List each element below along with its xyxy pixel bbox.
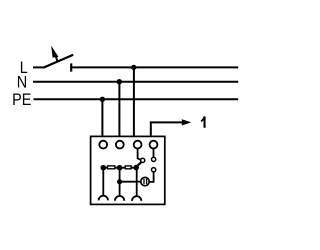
svg-text:N: N bbox=[17, 73, 27, 91]
terminal circle L bbox=[134, 141, 142, 149]
terminal circle output bbox=[150, 141, 158, 149]
switch blade internal bbox=[136, 162, 141, 167]
terminal circle N bbox=[116, 141, 124, 149]
switch S1 blade bbox=[43, 55, 73, 68]
socket contact arc 3 bbox=[132, 196, 141, 201]
arrow output 1 head bbox=[182, 119, 192, 125]
wire lamp right bbox=[149, 172, 153, 182]
wire contact1 stem bbox=[102, 168, 104, 196]
wire PE drop bbox=[101, 99, 103, 136]
contact SC3 bbox=[152, 168, 156, 172]
node bus N bbox=[117, 165, 123, 171]
node lamp junction bbox=[117, 179, 122, 184]
wire terminal L stem bbox=[138, 149, 141, 160]
wire output 1 bbox=[151, 122, 189, 136]
label 1 bbox=[201, 116, 206, 127]
link K1 bbox=[108, 166, 115, 169]
node PE junction bbox=[100, 97, 105, 102]
wire contact2 stem bbox=[119, 168, 121, 196]
wire PE bbox=[34, 98, 239, 100]
node N junction bbox=[117, 79, 122, 84]
contact SC1 bbox=[141, 158, 145, 162]
node bus PE bbox=[101, 165, 107, 171]
wire L main bbox=[71, 66, 238, 68]
terminal circle PE bbox=[99, 141, 107, 149]
wire contact3 stem bbox=[136, 168, 138, 197]
switch S1 fixed contact tick bbox=[70, 63, 72, 71]
svg-text:PE: PE bbox=[12, 91, 31, 109]
wire lamp left bbox=[120, 181, 141, 183]
socket contact arc 1 bbox=[99, 196, 108, 201]
lamp E1 glow lamp bbox=[141, 177, 149, 185]
internal bus wire bbox=[103, 167, 137, 169]
link K2 bbox=[125, 166, 131, 169]
wire L left stub bbox=[33, 66, 43, 68]
wire terminal output stem bbox=[153, 149, 155, 158]
node bus pole bbox=[133, 165, 139, 171]
wire N bbox=[33, 81, 238, 83]
device box U1 bbox=[91, 136, 165, 204]
switch S1 actuator arrow bbox=[51, 46, 58, 62]
wire L drop bbox=[133, 67, 135, 136]
contact SC2 bbox=[152, 157, 156, 161]
socket contact arc 2 bbox=[115, 196, 124, 201]
node L junction bbox=[131, 65, 136, 70]
wire N drop bbox=[118, 82, 120, 137]
